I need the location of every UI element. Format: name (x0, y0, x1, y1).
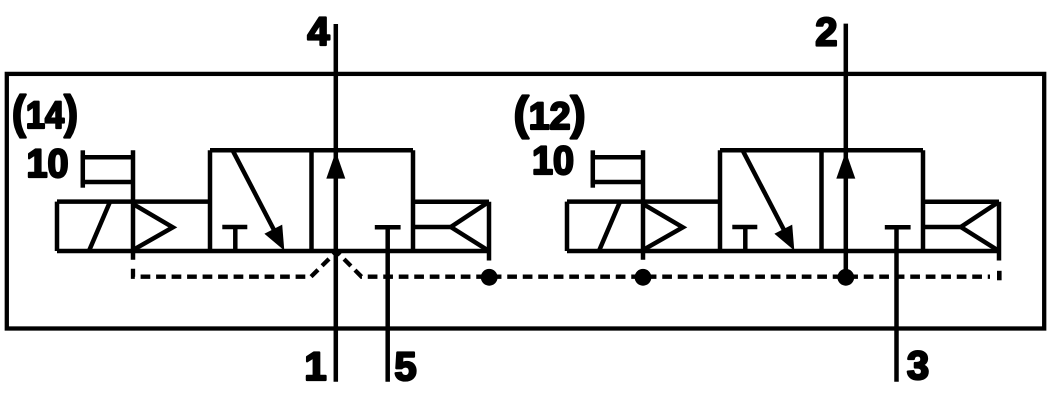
main valve body (right valve) (720, 150, 923, 251)
junction dot A (left end-cap pilot) (481, 269, 498, 286)
valve enclosure outline (7, 74, 1044, 329)
actuator box (right valve solenoid section) (567, 202, 720, 251)
pilot stem wire (left valve) (131, 150, 136, 259)
port 3 line (894, 227, 899, 381)
svg-text:10: 10 (532, 139, 574, 183)
pilot control dashed line (133, 252, 990, 277)
svg-text:(12): (12) (514, 87, 586, 139)
svg-text:4: 4 (307, 10, 330, 54)
svg-text:(14): (14) (12, 86, 78, 138)
pneumatic spring end-cap (right valve) (923, 202, 999, 251)
pilot triangle (right valve) (644, 205, 683, 250)
svg-text:1: 1 (304, 345, 326, 389)
svg-text:5: 5 (394, 345, 416, 389)
junction dot B (right coil pilot) (635, 269, 652, 286)
svg-text:3: 3 (907, 344, 929, 388)
bottom rail line (left valve bodies) (57, 249, 489, 254)
bottom rail line (right valve bodies) (567, 249, 999, 254)
solenoid coil 10 (left valve) (81, 150, 133, 187)
solenoid lever mark (left valve) (89, 202, 110, 251)
flow arrow 1-2 head (right valve, right square) (836, 152, 855, 179)
flow arrow 4-5 (left valve, left square) (233, 150, 285, 250)
blocked port T (right valve, right square) (885, 225, 911, 230)
port 2 line (844, 24, 849, 273)
solenoid lever mark (right valve) (599, 202, 620, 251)
port 5 line (385, 227, 390, 381)
junction dot C (port 2 pilot tap) (837, 269, 854, 286)
blocked port T (left valve, right square) (375, 225, 401, 230)
actuator box (left valve solenoid section) (57, 202, 210, 251)
svg-text:2: 2 (815, 11, 837, 55)
pilot triangle (left valve) (134, 205, 173, 250)
pilot line end tick (997, 271, 1002, 281)
blocked port T (right valve, left square) (732, 227, 757, 251)
flow arrow 1-4 head (left valve, right square) (326, 152, 345, 179)
flow arrow 2-3 (right valve, left square) (743, 150, 795, 250)
port 4/1 line (334, 24, 339, 382)
blocked port T (left valve, left square) (222, 227, 247, 251)
svg-text:10: 10 (27, 142, 69, 186)
main valve body (left valve) (210, 150, 413, 251)
pilot stem wire (right valve) (641, 150, 646, 259)
solenoid coil 10 (right valve) (591, 150, 643, 187)
end-cap pilot stub (right valve) (997, 251, 1002, 261)
pneumatic spring end-cap (left valve) (413, 202, 489, 251)
end-cap pilot stub (left valve) (487, 251, 492, 261)
